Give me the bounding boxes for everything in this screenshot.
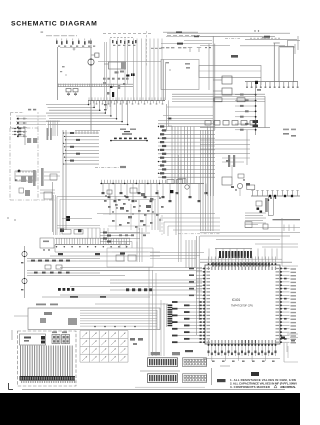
misc parts left of bus (103, 71, 135, 98)
connector comb bottom of power frame (245, 82, 299, 88)
notes text line 3 (230, 385, 296, 389)
wire: IC left side vertical feeds (197, 236, 200, 335)
NOTES label box (217, 379, 226, 382)
pad row under RA1 (212, 263, 270, 267)
wire: vertical drops from top rails to main bus (104, 31, 162, 100)
IC U2 reset supervisor (98, 48, 162, 69)
connector array CN3 row1 left (148, 358, 178, 367)
wire: long horizontals across center (60, 268, 202, 296)
latch cluster under right comb (245, 196, 300, 231)
wire: long line above black bar (22, 388, 285, 390)
top rails right-middle detail (161, 31, 220, 90)
wire: top horizontal rails (41, 30, 301, 54)
bus above IC U401 (200, 244, 298, 262)
connector array CN6 row2 right (183, 374, 207, 383)
comb network above audio section (50, 228, 160, 262)
comb ticks under staircase bus (75, 131, 100, 135)
svg-text:ARE CRITICAL: ARE CRITICAL (280, 385, 296, 389)
keyboard matrix wires inside amp box (80, 310, 157, 329)
component values row (crystal, caps) top left (56, 39, 95, 47)
wire: IC lower right drops (251, 334, 298, 376)
bus matrix grid (address/data) (158, 100, 215, 196)
wire: left-center horizontal bundle (63, 130, 99, 230)
shield box top right section (161, 60, 261, 101)
filter lines top center of section (100, 232, 140, 249)
connector array CN5 row2 left (148, 374, 178, 383)
transistors Q31 Q32 left middle (21, 238, 54, 298)
IC U401 right pin labels (291, 268, 297, 343)
resistors R11 R12 cluster (60, 66, 78, 96)
keyboard matrix lattice with key diodes (80, 331, 128, 363)
regulator boxes right (213, 55, 238, 95)
shield box corners center-left (7, 195, 160, 235)
LCD module block (18, 331, 77, 386)
keyboard aux label boxes (130, 338, 143, 345)
power rail frame right top (273, 43, 293, 82)
LCD connector dark row (20, 376, 76, 383)
shield box left (tuner) dash-dot border (10, 128, 38, 200)
svg-text:IC401: IC401 (232, 298, 241, 302)
wire: right vertical bundle x200-214 (200, 130, 250, 231)
connector array CN4 row1 right (183, 358, 207, 367)
wire: verticals down to bottom connectors (95, 267, 168, 356)
svg-text:SCHEMATIC DIAGRAM: SCHEMATIC DIAGRAM (11, 20, 98, 27)
page bracket bottom left (9, 330, 14, 390)
annotation 1.5V dash-dot arrow (95, 166, 126, 168)
IF parts right of shield (10, 172, 60, 232)
diode D5 dark blob (255, 81, 258, 84)
bottom black bar (0, 393, 300, 425)
svg-text:TMP47C870F CPU: TMP47C870F CPU (231, 304, 253, 308)
amplifier box bottom left (14, 304, 160, 330)
main IC U401 microcontroller body (205, 265, 280, 344)
component values row top middle (112, 40, 137, 46)
connector CN1 dashed box top-left (10, 109, 38, 137)
LCD ribbon hatch lines (21, 346, 73, 377)
resistor network RA1 dark comb (215, 248, 252, 258)
bus: staircase wires to left block (16, 100, 136, 129)
IC U401 top pins (208, 257, 277, 266)
wire: staircase left-end verticals (46, 121, 60, 137)
wires between connector rows (140, 350, 230, 385)
resistor row R31-R36 (200, 121, 270, 128)
transistor Q21 area right middle (222, 133, 296, 196)
wire: vertical bus pair x213 (213, 37, 215, 131)
IC U401 left pins (172, 268, 205, 343)
wire: right mid horizontals y232-240 (200, 218, 300, 266)
IC U401 right pins (280, 268, 290, 343)
wires right of main bus (104, 100, 213, 130)
rectifier chain below (235, 84, 296, 135)
speaker SP1 line with ground tick (60, 41, 92, 51)
svg-text:3. COMPONENTS MARKED: 3. COMPONENTS MARKED (230, 385, 270, 389)
tuner parts inside shield (12, 127, 52, 197)
bus: central comb with components y183 (100, 180, 208, 203)
IC U401 bottom pins with diodes (203, 344, 280, 362)
transistor Q1 with vertical wire (88, 45, 99, 131)
wire: audio bundle to right (27, 259, 152, 298)
ceramic filter row (110, 138, 148, 142)
shield corner rects center (107, 248, 153, 267)
analog small parts under comb (97, 185, 220, 236)
connector comb right y196 (247, 185, 300, 197)
wire: 4-line bundle to regulators (172, 94, 265, 127)
wire: vertical feed x57 (58, 47, 134, 100)
oscillator label block (122, 131, 132, 135)
bus: main horizontal with ticks y100 (88, 97, 165, 104)
wires from matrix to IC left (150, 155, 204, 268)
connector column J3 vertical (167, 304, 173, 327)
